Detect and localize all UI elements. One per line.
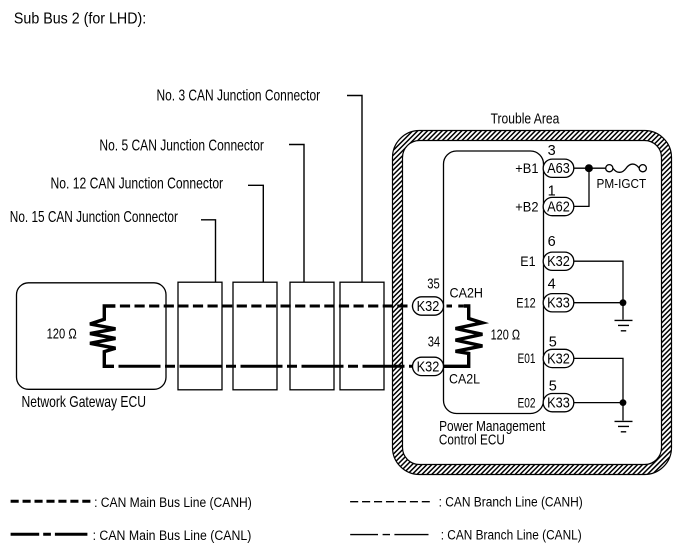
svg-text:Control ECU: Control ECU — [439, 431, 505, 448]
svg-text:+B2: +B2 — [515, 199, 538, 214]
svg-text:K32: K32 — [417, 359, 440, 375]
svg-text:4: 4 — [548, 277, 556, 293]
svg-text:Trouble Area: Trouble Area — [491, 110, 560, 127]
svg-text:5: 5 — [549, 379, 557, 395]
svg-text:K33: K33 — [547, 296, 570, 312]
svg-text:E02: E02 — [518, 395, 536, 410]
svg-text:A63: A63 — [547, 161, 570, 177]
svg-text:34: 34 — [428, 334, 441, 350]
svg-text:E12: E12 — [516, 295, 535, 310]
svg-text:Network Gateway ECU: Network Gateway ECU — [22, 394, 147, 411]
svg-text:6: 6 — [548, 234, 556, 250]
svg-text:120 Ω: 120 Ω — [47, 327, 77, 343]
svg-text:K32: K32 — [547, 351, 570, 367]
svg-text:Sub Bus 2 (for LHD):: Sub Bus 2 (for LHD): — [14, 11, 146, 28]
svg-text:CA2H: CA2H — [450, 285, 484, 301]
svg-text:No. 3 CAN Junction Connector: No. 3 CAN Junction Connector — [157, 88, 321, 105]
svg-text:K32: K32 — [417, 299, 440, 315]
svg-text:1: 1 — [548, 184, 556, 200]
svg-text:PM-IGCT: PM-IGCT — [597, 176, 647, 191]
svg-text:No. 5 CAN Junction Connector: No. 5 CAN Junction Connector — [99, 137, 264, 154]
svg-text:35: 35 — [427, 277, 440, 293]
svg-text:A62: A62 — [547, 200, 570, 216]
svg-text:E1: E1 — [520, 254, 535, 269]
svg-text:K32: K32 — [547, 254, 570, 270]
svg-text:K33: K33 — [547, 396, 570, 412]
svg-text:: CAN Branch Line (CANL): : CAN Branch Line (CANL) — [441, 528, 582, 543]
svg-text:: CAN Main Bus Line (CANL): : CAN Main Bus Line (CANL) — [93, 528, 252, 543]
svg-text:No. 15 CAN Junction Connector: No. 15 CAN Junction Connector — [10, 209, 179, 226]
svg-text:5: 5 — [549, 335, 557, 351]
svg-text:3: 3 — [548, 143, 556, 159]
svg-text:120 Ω: 120 Ω — [491, 327, 521, 343]
svg-text:: CAN Main Bus Line (CANH): : CAN Main Bus Line (CANH) — [94, 495, 252, 510]
svg-text:CA2L: CA2L — [449, 371, 480, 387]
svg-text:: CAN Branch Line (CANH): : CAN Branch Line (CANH) — [439, 495, 583, 510]
svg-text:E01: E01 — [518, 351, 536, 366]
svg-text:+B1: +B1 — [515, 161, 538, 176]
svg-text:No. 12 CAN Junction Connector: No. 12 CAN Junction Connector — [51, 175, 224, 192]
